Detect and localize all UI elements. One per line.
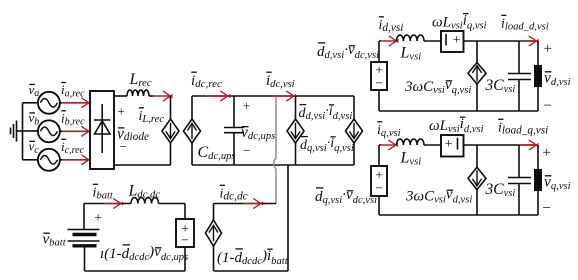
svg-text:+: + (93, 211, 102, 226)
wire dcdc bottom (214, 270, 289, 272)
rectifier block (90, 91, 114, 169)
wire rec top (114, 95, 127, 97)
wire dcdc left lower (213, 246, 215, 271)
svg-text:+: + (542, 41, 552, 57)
wire d bottom (378, 90, 380, 111)
load d (537, 41, 539, 111)
wire batt bottom (84, 246, 86, 271)
svg-text:iL,rec: iL,rec (139, 109, 165, 125)
source dd_vdc box (371, 62, 387, 90)
wire ac bus (22, 103, 24, 160)
svg-text:(1-ddcdc)ibatt: (1-ddcdc)ibatt (217, 248, 289, 267)
wire dcdc link gray (274, 97, 276, 204)
svg-text:iq,vsi: iq,vsi (377, 123, 401, 139)
svg-text:dd,vsi·vdc,vsi: dd,vsi·vdc,vsi (317, 42, 379, 61)
svg-text:3ωCvsivq,vsi: 3ωCvsivq,vsi (404, 77, 471, 96)
svg-text:ia,rec: ia,rec (61, 82, 85, 99)
wire dcdc right (287, 165, 289, 271)
ground (11, 121, 23, 142)
source 1-d ibatt diamond (206, 220, 222, 246)
wire dcbus bottom (192, 164, 354, 166)
wire vsi q branch upper (353, 96, 355, 119)
svg-text:Lvsi: Lvsi (400, 45, 422, 63)
wire dcbus left lower (191, 143, 193, 165)
wire q bottom (378, 196, 380, 215)
svg-text:idc,dc: idc,dc (220, 187, 248, 203)
svg-text:ı(1-ddcdc)vdc,ups: ı(1-ddcdc)vdc,ups (100, 244, 188, 263)
wire dcbus top (192, 95, 354, 97)
svg-text:−: − (541, 201, 551, 217)
source 3wC_vd diamond (468, 167, 486, 189)
wire d cs branch lower (476, 84, 478, 111)
load q (537, 145, 539, 215)
svg-text:+: + (541, 145, 551, 161)
capacitor 3C_vsi d (508, 41, 531, 111)
wire batt top (83, 204, 85, 230)
current arrow idc_dc (243, 203, 260, 205)
svg-text:+: + (117, 104, 126, 119)
current arrow iload_d (518, 40, 536, 42)
source Vc (38, 149, 60, 171)
source idc_rec diamond (184, 119, 201, 143)
wire dcdc top (214, 203, 277, 205)
wire d top2 (424, 40, 441, 42)
battery vbatt (68, 230, 100, 246)
svg-text:−: − (119, 139, 128, 154)
svg-text:−: − (374, 181, 383, 196)
svg-text:+: + (242, 98, 251, 113)
current arrow idc_vsi (272, 95, 293, 97)
wire rec top2 (149, 95, 154, 97)
wire phase c left (23, 159, 39, 161)
svg-text:vbatt: vbatt (43, 232, 67, 249)
current arrow id_vsi (380, 40, 396, 42)
svg-text:Lvsi: Lvsi (400, 150, 422, 168)
svg-text:−: − (242, 143, 251, 158)
svg-text:idc,vsi: idc,vsi (266, 73, 295, 90)
wire phase c right (60, 159, 90, 161)
svg-text:Cdc,ups: Cdc,ups (198, 144, 236, 162)
current arrow ia_rec (62, 102, 88, 104)
wire q top3 (464, 144, 539, 146)
wire q left upper (378, 145, 380, 166)
wire vsi d branch lower (295, 143, 297, 165)
svg-text:dq,vsi·iq,vsi: dq,vsi·iq,vsi (300, 136, 354, 154)
current arrow iload_q (518, 144, 536, 146)
wire q cs branch upper (476, 145, 478, 167)
wire dcdc left upper (213, 204, 215, 221)
source dd_id diamond (287, 119, 304, 143)
svg-text:ωLvsiiq,vsi: ωLvsiiq,vsi (432, 12, 487, 31)
source dq_iq diamond (346, 119, 363, 143)
source wL_id box (441, 135, 464, 157)
svg-text:−: − (542, 98, 552, 114)
svg-text:ib,rec: ib,rec (61, 110, 85, 127)
current arrow idc_rec (205, 95, 227, 97)
source iL_rec diamond (162, 119, 179, 143)
svg-text:−: − (374, 76, 383, 91)
svg-text:+: + (452, 33, 461, 48)
wire rec right upper (170, 96, 172, 119)
diode (94, 104, 111, 153)
svg-text:ic,rec: ic,rec (61, 139, 85, 156)
svg-text:Lrec: Lrec (129, 71, 152, 89)
svg-text:ibatt: ibatt (93, 186, 114, 202)
wire phase b left (23, 130, 39, 132)
wire phase a left (23, 102, 39, 104)
current arrow ic_rec (62, 159, 88, 161)
source Va (38, 92, 60, 114)
inductor L_vsi d (397, 35, 425, 41)
svg-text:−: − (180, 233, 189, 248)
capacitor C_dc_ups (224, 96, 244, 165)
inductor L_rec (127, 90, 149, 96)
source dq_vdc box (371, 166, 387, 196)
svg-text:3ωCvsivd,vsi: 3ωCvsivd,vsi (405, 186, 472, 205)
wire batt top2 (159, 203, 186, 205)
source 1-d vdcups box (176, 219, 194, 247)
svg-text:iload_d,vsi: iload_d,vsi (501, 17, 549, 33)
source 3wC_vq diamond (468, 63, 486, 85)
source wL_iq box (441, 31, 464, 52)
svg-text:dq,vsi·vdc,vsi: dq,vsi·vdc,vsi (315, 187, 377, 206)
wire dcbus left upper (191, 96, 193, 119)
wire q cs branch lower (476, 190, 478, 215)
wire d top3 (464, 40, 539, 42)
wire d cs branch upper (476, 41, 478, 63)
capacitor 3C_vsi q (508, 145, 531, 215)
wire d left upper (378, 41, 380, 62)
svg-text:dd,vsi·id,vsi: dd,vsi·id,vsi (299, 104, 353, 122)
wire q top2 (424, 144, 441, 146)
current arrow ib_rec (62, 130, 88, 132)
svg-text:id,vsi: id,vsi (379, 18, 404, 34)
current arrow iq_vsi (380, 144, 395, 146)
svg-text:Ldc,dc: Ldc,dc (128, 183, 161, 201)
wire phase b right (60, 130, 90, 132)
svg-text:idc,rec: idc,rec (191, 73, 222, 90)
source Vb (38, 120, 60, 142)
wire batt right lower (184, 247, 186, 271)
wire rec bottom (114, 164, 171, 166)
svg-text:iload_q,vsi: iload_q,vsi (498, 121, 548, 137)
wire vsi q branch lower (353, 143, 355, 165)
svg-text:+: + (444, 137, 453, 152)
wire rec right lower (170, 143, 172, 165)
current arrow ibatt (103, 203, 120, 205)
inductor L_dc_dc (131, 198, 159, 204)
wire vsi d branch upper (295, 96, 297, 119)
inductor L_vsi q (397, 139, 425, 145)
current arrow iL_rec (152, 95, 170, 97)
svg-text:ωLvsiid,vsi: ωLvsiid,vsi (429, 116, 484, 135)
wire phase a right (60, 102, 90, 104)
